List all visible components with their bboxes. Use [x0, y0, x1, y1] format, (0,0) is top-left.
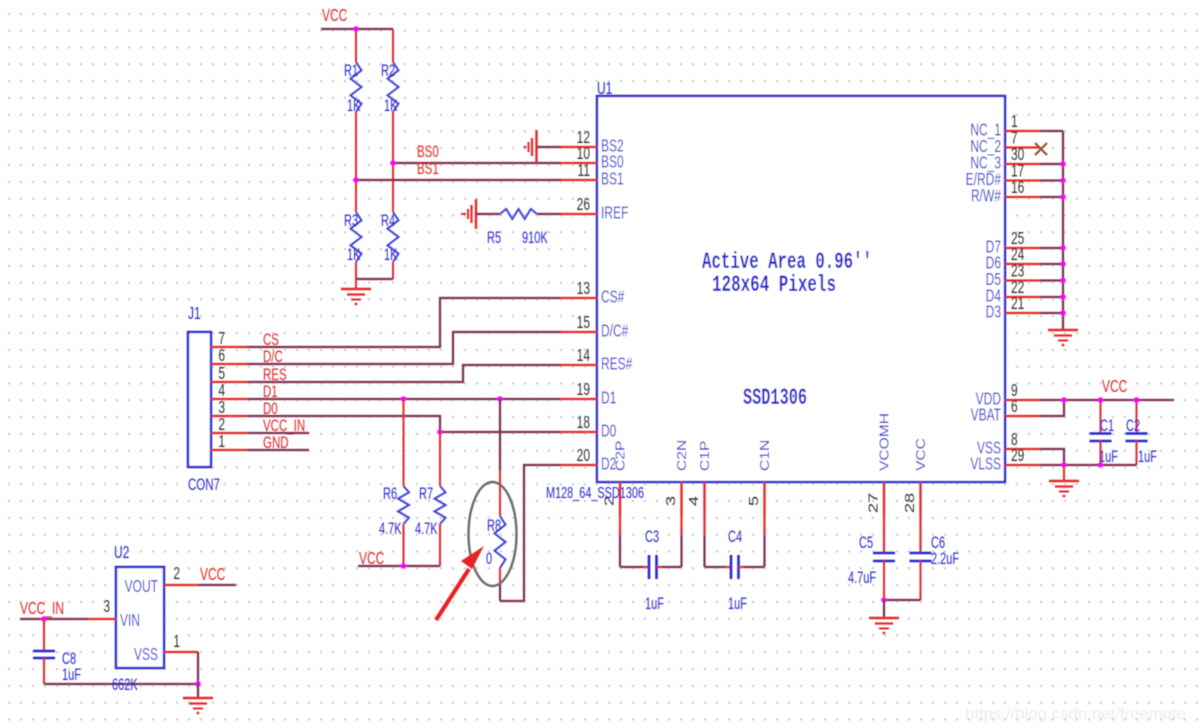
svg-text:28: 28: [904, 493, 918, 513]
svg-text:BS1: BS1: [601, 169, 624, 189]
svg-text:D0: D0: [601, 421, 616, 441]
svg-text:RES#: RES#: [601, 354, 633, 374]
svg-text:1uF: 1uF: [62, 665, 81, 684]
svg-text:5: 5: [748, 496, 762, 506]
svg-text:18: 18: [577, 413, 590, 433]
svg-text:1K: 1K: [384, 245, 398, 264]
svg-text:R6: R6: [383, 484, 397, 503]
svg-text:CS#: CS#: [601, 287, 625, 307]
svg-text:VCC: VCC: [200, 565, 225, 585]
svg-text:VCC: VCC: [1102, 377, 1127, 397]
svg-text:2.2uF: 2.2uF: [931, 549, 959, 568]
svg-text:1uF: 1uF: [1099, 447, 1118, 466]
svg-text:4.7uF: 4.7uF: [848, 568, 876, 587]
svg-text:27: 27: [867, 493, 881, 513]
svg-text:20: 20: [577, 446, 590, 466]
svg-text:2: 2: [173, 564, 180, 584]
svg-text:VSS: VSS: [134, 645, 158, 665]
svg-text:C1P: C1P: [698, 441, 712, 471]
svg-text:C2P: C2P: [613, 441, 627, 471]
svg-text:4: 4: [688, 496, 702, 506]
svg-text:CON7: CON7: [188, 476, 220, 495]
svg-text:19: 19: [577, 380, 590, 400]
svg-text:1K: 1K: [347, 96, 361, 115]
svg-text:C4: C4: [728, 527, 742, 546]
svg-text:3: 3: [665, 496, 679, 506]
svg-text:VBAT: VBAT: [971, 405, 1001, 425]
svg-text:IREF: IREF: [601, 203, 628, 223]
svg-text:M128_64_SSD1306: M128_64_SSD1306: [546, 484, 644, 501]
svg-text:C1N: C1N: [758, 440, 772, 471]
svg-text:R4: R4: [381, 211, 395, 230]
svg-text:VCOMH: VCOMH: [877, 413, 891, 471]
svg-text:D/C#: D/C#: [601, 321, 629, 341]
svg-text:R/W#: R/W#: [971, 186, 1002, 206]
svg-text:16: 16: [1011, 178, 1024, 198]
svg-text:29: 29: [1011, 446, 1024, 466]
svg-text:128x64 Pixels: 128x64 Pixels: [712, 271, 836, 298]
svg-text:26: 26: [577, 195, 590, 215]
svg-text:C2N: C2N: [675, 440, 689, 471]
svg-text:VOUT: VOUT: [125, 577, 158, 597]
svg-text:U1: U1: [597, 79, 612, 99]
svg-text:J1: J1: [188, 304, 201, 324]
svg-text:15: 15: [577, 313, 590, 333]
svg-text:1uF: 1uF: [645, 594, 664, 613]
svg-text:C2: C2: [1126, 416, 1140, 435]
svg-text:1uF: 1uF: [728, 594, 747, 613]
svg-text:U2: U2: [114, 543, 129, 563]
svg-text:1uF: 1uF: [1138, 447, 1157, 466]
svg-text:VCC: VCC: [322, 6, 347, 26]
svg-text:R5: R5: [487, 228, 501, 247]
svg-text:4.7K: 4.7K: [379, 519, 402, 538]
svg-text:11: 11: [578, 161, 590, 181]
svg-text:https://blog.csdn.net/freemqte: https://blog.csdn.net/freemqte: [965, 706, 1186, 723]
svg-text:C5: C5: [859, 533, 873, 552]
svg-text:BS0: BS0: [417, 143, 439, 162]
svg-text:1K: 1K: [347, 245, 361, 264]
svg-text:VCC: VCC: [914, 438, 928, 471]
svg-text:VCC_IN: VCC_IN: [20, 599, 64, 619]
svg-text:13: 13: [577, 279, 590, 299]
svg-text:910K: 910K: [522, 228, 548, 247]
svg-text:6: 6: [1011, 397, 1018, 417]
svg-text:R8: R8: [487, 516, 501, 535]
svg-text:BS1: BS1: [417, 160, 439, 179]
svg-text:D3: D3: [986, 302, 1001, 322]
svg-text:21: 21: [1011, 294, 1024, 314]
svg-text:VCC: VCC: [359, 549, 384, 569]
svg-text:D1: D1: [601, 388, 616, 408]
svg-text:1: 1: [218, 432, 225, 452]
svg-text:1: 1: [173, 632, 180, 652]
svg-text:C3: C3: [645, 527, 659, 546]
svg-text:C1: C1: [1100, 416, 1114, 435]
svg-text:VIN: VIN: [120, 611, 140, 631]
svg-text:R2: R2: [381, 61, 395, 80]
svg-text:6: 6: [218, 346, 225, 366]
svg-text:3: 3: [103, 597, 110, 617]
svg-text:VLSS: VLSS: [970, 454, 1001, 474]
svg-text:SSD1306: SSD1306: [743, 384, 807, 411]
svg-text:14: 14: [577, 346, 590, 366]
svg-text:R7: R7: [419, 484, 433, 503]
svg-text:R3: R3: [344, 211, 358, 230]
svg-text:R1: R1: [344, 61, 358, 80]
svg-text:4.7K: 4.7K: [415, 519, 438, 538]
svg-text:1K: 1K: [384, 96, 398, 115]
svg-text:662K: 662K: [112, 675, 138, 694]
svg-text:0: 0: [486, 549, 492, 568]
